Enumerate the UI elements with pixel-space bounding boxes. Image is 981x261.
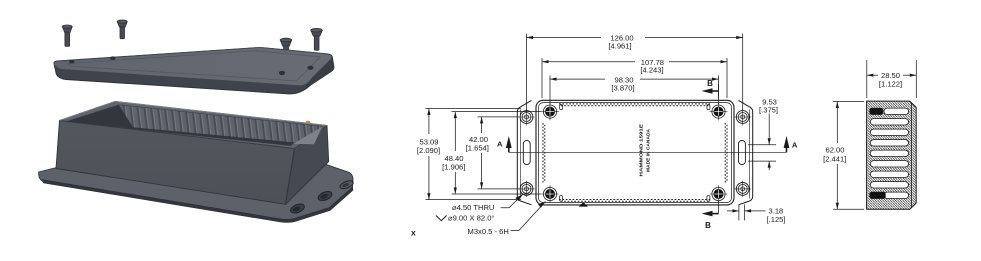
flange right inner line — [749, 110, 751, 199]
dim 107.78 text — [640, 58, 664, 75]
boss top-left — [541, 103, 559, 120]
rib hidden lines top — [559, 104, 710, 106]
flange base top face — [39, 165, 353, 220]
rib slot 8 — [870, 182, 908, 188]
svg-text:[1.122]: [1.122] — [879, 79, 902, 88]
dim 126.00 text — [608, 33, 633, 50]
interior base / floor — [67, 105, 322, 145]
gate mark triangle — [579, 202, 588, 206]
rib hidden lines left — [543, 123, 545, 183]
rib hidden lines bottom — [559, 200, 710, 202]
interior right wall sliver — [291, 127, 323, 146]
boss bottom-left — [541, 185, 559, 202]
lid screw hole 2 — [110, 56, 115, 60]
svg-text:⌀4.50 THRU: ⌀4.50 THRU — [452, 203, 494, 212]
note M3 callout leader — [511, 202, 546, 231]
lid screw hole 1 — [69, 60, 74, 64]
flange hole top-right — [735, 109, 751, 125]
boss bottom-right — [710, 185, 728, 202]
dim 42.00 line + arrows — [481, 117, 483, 133]
dim 98.30 extension lines — [549, 76, 551, 105]
screw 2 — [117, 20, 127, 39]
section A arrow left — [497, 136, 512, 152]
flange slot right — [739, 140, 746, 164]
dim 53.09 text — [417, 137, 440, 155]
svg-text:[3.870]: [3.870] — [611, 84, 634, 93]
dim 98.30 line + arrows — [550, 78, 605, 80]
boss tab top-right — [707, 105, 710, 110]
svg-text:A: A — [792, 140, 798, 149]
flange inner line — [910, 103, 912, 207]
svg-text:A: A — [497, 139, 503, 148]
flange slot left — [523, 140, 530, 164]
note hole callout text — [448, 203, 494, 223]
svg-text:B: B — [705, 221, 711, 230]
lid top face — [54, 48, 332, 86]
dim 3.18 — [727, 205, 786, 225]
dim 107.78 extension lines — [541, 58, 543, 98]
dim 42.00 text — [466, 135, 489, 153]
flange slot hole upper — [317, 190, 333, 203]
dim 98.30 text — [611, 75, 634, 92]
flange ear slot — [339, 179, 354, 190]
screw 3 — [280, 38, 292, 65]
flange hole bottom-left — [518, 181, 534, 197]
flange hole top-left — [518, 109, 534, 125]
boss hole bottom — [870, 192, 886, 198]
svg-text:MADE IN CANADA: MADE IN CANADA — [645, 129, 650, 172]
dim 126.00 extension lines — [526, 34, 528, 112]
svg-text:[2.441]: [2.441] — [823, 155, 846, 164]
body outer rect — [536, 100, 734, 205]
rib slot 3 — [870, 129, 908, 135]
screw 4 — [311, 28, 323, 50]
interior far wall with ribs — [119, 105, 322, 144]
svg-text:[1.654]: [1.654] — [466, 144, 489, 153]
lid silhouette / side band — [54, 48, 334, 94]
svg-text:[4.961]: [4.961] — [608, 42, 631, 51]
dim 9.53 — [748, 98, 778, 171]
rib slot 2 — [870, 119, 908, 125]
boss tab bottom-right — [707, 196, 710, 202]
svg-text:M3x0.5 - 6H: M3x0.5 - 6H — [468, 227, 509, 236]
svg-text:[.375]: [.375] — [759, 106, 778, 115]
countersink symbol — [436, 216, 447, 221]
svg-text:HAMMOND 1591E: HAMMOND 1591E — [639, 123, 645, 177]
lid top inset line — [67, 51, 321, 81]
rib slot 6 — [870, 161, 908, 167]
section body hatched — [867, 101, 917, 209]
boss tab bottom-left — [560, 196, 563, 202]
box front face — [56, 121, 295, 205]
rib slot 9 — [884, 192, 909, 198]
rib hidden lines right — [725, 123, 727, 183]
section B arrow top — [702, 79, 719, 98]
rib slot 5 — [870, 150, 908, 156]
dim 53.09 extension lines — [426, 108, 522, 110]
note hole callout leader — [501, 195, 523, 208]
flange thickness edge — [42, 180, 354, 223]
flange hole bottom-right — [735, 181, 751, 197]
dim 107.78 line + arrows — [542, 61, 635, 63]
section B arrow bottom — [702, 201, 719, 231]
svg-text:[1.906]: [1.906] — [442, 162, 465, 171]
boss hole top — [870, 108, 883, 114]
lid right edge face — [306, 56, 334, 89]
flange left outline — [517, 100, 531, 204]
dim 28.50 — [867, 60, 917, 98]
dim 48.40 extension lines — [452, 111, 542, 113]
flange right outline — [739, 100, 753, 204]
box right face — [286, 126, 329, 205]
section A arrow right — [784, 136, 798, 152]
lid screw hole 4 — [307, 66, 313, 70]
molded text center — [639, 123, 651, 177]
flange slot hole lower — [289, 202, 305, 215]
dim 62.00 — [823, 102, 864, 210]
rib slot 4 — [870, 140, 908, 146]
dim 126.00 line + arrows — [527, 37, 602, 39]
dim 42.00 extension lines — [478, 116, 519, 118]
body inner draft line — [538, 103, 731, 203]
svg-text:x: x — [411, 228, 416, 238]
brass insert dot — [306, 121, 311, 124]
svg-text:[4.243]: [4.243] — [640, 65, 663, 74]
rib slot 1 — [884, 108, 909, 114]
rib slot 7 — [870, 171, 908, 177]
svg-text:62.00: 62.00 — [825, 145, 844, 154]
lid screw hole 3 — [279, 71, 285, 75]
svg-text:⌀9.00 X 82.0°: ⌀9.00 X 82.0° — [448, 214, 494, 223]
flange left inner line — [519, 110, 521, 199]
boss tab top-left — [560, 105, 563, 110]
svg-text:[.125]: [.125] — [767, 215, 786, 224]
svg-text:B: B — [707, 79, 713, 88]
dim 48.40 text — [442, 154, 465, 172]
centerline A-A — [509, 151, 787, 153]
dim 48.40 line + arrows — [454, 112, 456, 151]
screw 1 — [62, 25, 72, 46]
boss top-right — [710, 103, 728, 120]
rim highlight — [60, 102, 328, 126]
svg-text:[2.090]: [2.090] — [417, 146, 440, 155]
box rim ring — [60, 102, 328, 149]
dim 53.09 line + arrows — [428, 109, 430, 135]
